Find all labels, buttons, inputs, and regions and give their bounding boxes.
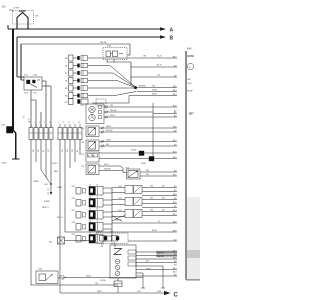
wire jog xyxy=(13,130,16,133)
svg-text:G/8B7: G/8B7 xyxy=(57,187,62,189)
wire x41 down xyxy=(40,112,42,128)
svg-text:2/29: 2/29 xyxy=(71,234,75,236)
svg-text:NA1: NA1 xyxy=(54,170,58,173)
wire to ECM y207.5 xyxy=(142,207,177,209)
svg-text:22: 22 xyxy=(68,122,70,124)
svg-text:2/26: 2/26 xyxy=(71,198,75,200)
wire 4/52 to ECM y269.5 xyxy=(136,269,177,271)
wire 7/23 to ECM y172 xyxy=(140,171,177,173)
connector strip row xyxy=(29,128,33,140)
wire to ECM y113 xyxy=(153,113,177,115)
wire branch vertical x131 xyxy=(130,62,132,85)
svg-text:NET: NET xyxy=(189,114,194,116)
svg-text:8G: 8G xyxy=(65,96,68,98)
svg-text:GN-R: GN-R xyxy=(106,140,112,142)
wire feed stub xyxy=(7,25,9,29)
svg-text:G4/8B: G4/8B xyxy=(33,181,39,183)
junction knot MM/MB xyxy=(134,86,137,89)
wire comp4 to ECM y158 xyxy=(99,158,177,160)
svg-text:GN-R: GN-R xyxy=(146,269,151,271)
svg-text:B: B xyxy=(170,36,174,42)
svg-text:31B-1: 31B-1 xyxy=(2,163,8,165)
wire 30+ lead xyxy=(9,10,13,12)
fuse element symbol xyxy=(17,13,28,29)
svg-text:14: 14 xyxy=(78,122,80,124)
wire to ECM y191.5 xyxy=(142,191,177,193)
svg-text:BL: BL xyxy=(43,150,45,152)
wire row 8B to ECM xyxy=(92,57,177,59)
svg-text:C: C xyxy=(174,293,179,299)
svg-text:SB-R: SB-R xyxy=(97,291,102,293)
svg-text:2/28: 2/28 xyxy=(71,222,75,224)
wire to ECM y91 xyxy=(137,91,177,93)
wire to ECM y223 xyxy=(112,222,177,224)
arrowhead B xyxy=(160,35,166,39)
wire comp5 out a xyxy=(99,165,120,167)
wire bottom y293 xyxy=(60,292,164,294)
wire row7 up corner xyxy=(128,96,130,104)
wire down x143 xyxy=(142,273,144,288)
svg-text:4/46: 4/46 xyxy=(187,49,192,51)
svg-text:12: 12 xyxy=(29,122,31,124)
wire vertical x17 to relay xyxy=(16,37,18,77)
svg-text:2/28: 2/28 xyxy=(1,125,5,127)
wire down from connector x65 xyxy=(64,140,66,233)
wire down x60 long xyxy=(59,140,61,272)
svg-text:SB-R: SB-R xyxy=(110,115,115,117)
wire down from connector x70 xyxy=(69,140,71,169)
svg-text:B4/1-1: B4/1-1 xyxy=(57,217,63,219)
connector 53/2B inline xyxy=(139,151,144,156)
highlighted wire labels xyxy=(156,251,177,254)
wire comp1 to ECM y107 xyxy=(104,106,177,108)
svg-text:E3/5B: E3/5B xyxy=(44,201,50,203)
svg-text:31: 31 xyxy=(39,122,41,124)
wire 6/26 branch to ECM y67 xyxy=(131,66,177,68)
arrowhead C xyxy=(164,291,171,295)
wire down from connector x75 xyxy=(74,140,76,163)
wire comp1 to vertical x153 xyxy=(104,111,153,113)
wire 4/52 bend y273 xyxy=(136,272,143,274)
svg-text:B-11: B-11 xyxy=(29,118,31,122)
svg-text:GN-BR: GN-BR xyxy=(104,169,111,171)
wire to ECM y187.5 xyxy=(142,187,177,189)
svg-text:A1B: A1B xyxy=(173,229,177,232)
wire thick vertical feed x13 xyxy=(12,29,14,130)
wire relay bottom down x31 xyxy=(30,90,32,128)
wire merge diagonal 1 xyxy=(41,170,48,180)
svg-text:2/27: 2/27 xyxy=(71,210,75,212)
wire down x51 with arrow xyxy=(50,140,52,193)
svg-text:MM/MB: MM/MB xyxy=(139,86,147,88)
svg-text:SB-R: SB-R xyxy=(152,94,157,96)
wire to ECM y199.5 xyxy=(142,199,177,201)
svg-text:LV7B4: LV7B4 xyxy=(100,280,106,282)
svg-text:NA/GN2: NA/GN2 xyxy=(157,251,164,254)
wire relay out right 2 xyxy=(42,85,51,87)
svg-text:A/C: A/C xyxy=(188,78,192,81)
wire down from connector x41 xyxy=(40,140,42,171)
wire fan to junction MM/MB xyxy=(92,66,135,87)
wire long to ECM y232 xyxy=(65,231,177,233)
svg-text:B3-B: B3-B xyxy=(152,230,157,232)
svg-text:SLN: SLN xyxy=(188,83,193,85)
wire row7 xyxy=(92,102,129,104)
wire to ECM y195.5 xyxy=(142,195,177,197)
wire knot to ECM xyxy=(137,87,178,89)
ground tick 31B xyxy=(12,158,20,160)
svg-text:NA/GN: NA/GN xyxy=(115,219,122,222)
svg-text:GN-R: GN-R xyxy=(106,126,112,128)
wire vertical x21 to relay xyxy=(20,44,22,80)
wire to ECM y211.5 xyxy=(142,211,177,213)
fuse 11/6 dashed box xyxy=(13,11,34,25)
wire x36 down xyxy=(35,100,37,128)
wire 6/26 to branch vertical xyxy=(107,61,131,63)
svg-text:54/5: 54/5 xyxy=(44,184,48,186)
svg-text:4: 4 xyxy=(44,122,45,124)
svg-text:A: A xyxy=(170,28,174,34)
wire injector daisy vertical x112 xyxy=(111,188,113,241)
svg-text:2: 2 xyxy=(58,122,59,124)
wire bottom y277 xyxy=(63,277,143,279)
wire crossing NA/GN xyxy=(112,216,125,222)
wire 30+ feed to A xyxy=(8,28,160,30)
wire 6/26 branch to ECM y77 xyxy=(131,76,177,78)
circled L symbol xyxy=(187,63,193,69)
wire 7/23 to ECM y176 xyxy=(140,175,177,177)
wire to ECM y215.5 xyxy=(142,215,177,217)
wire to ECM y241 xyxy=(128,240,177,242)
svg-text:53/2B: 53/2B xyxy=(131,150,137,152)
svg-text:BL: BL xyxy=(77,150,79,152)
svg-text:NA/GN2: NA/GN2 xyxy=(157,255,164,258)
wire bottom y285 xyxy=(70,284,118,286)
svg-text:18: 18 xyxy=(49,122,51,124)
svg-text:MTRF: MTRF xyxy=(187,91,194,93)
wire 4/52 to ECM y255.5 xyxy=(136,255,177,257)
connector LV7B4 xyxy=(117,278,119,281)
svg-text:BL-R: BL-R xyxy=(157,56,162,58)
wire down from connector x80 xyxy=(79,140,81,156)
svg-text:ECM: ECM xyxy=(188,54,195,58)
svg-text:GN-SB: GN-SB xyxy=(100,42,107,44)
svg-text:5: 5 xyxy=(73,122,74,124)
wire 4/52 bend y266 xyxy=(136,265,163,267)
wire comp4 to ECM y153 xyxy=(99,152,177,154)
wire 6/26 bottom stubs xyxy=(106,60,108,63)
ECM connector 4/46 bus line xyxy=(185,51,187,280)
svg-text:SB-GN: SB-GN xyxy=(106,130,113,132)
svg-text:2/25: 2/25 xyxy=(71,186,75,188)
wire x31 corner bottom xyxy=(31,284,70,286)
wire vertical x153 xyxy=(152,103,154,157)
svg-text:A1B: A1B xyxy=(173,220,177,223)
svg-text:SB-GN: SB-GN xyxy=(110,110,117,112)
svg-text:7: 7 xyxy=(34,122,35,124)
wire down from connector x36 xyxy=(35,140,37,163)
svg-text:GN-R: GN-R xyxy=(152,90,158,92)
wire down from connector x31 xyxy=(30,140,32,286)
wire down x163 xyxy=(162,266,164,288)
arrowhead A xyxy=(160,27,166,31)
svg-text:2/32-1: 2/32-1 xyxy=(52,163,59,165)
wire to 6/26 xyxy=(21,43,130,45)
wire 4/52 to ECM y252 xyxy=(136,251,177,253)
wire comp3 to ECM y141 xyxy=(99,141,177,143)
wire feed to B xyxy=(17,36,160,38)
wire drop into 6/26 xyxy=(129,44,131,55)
connector tick bottom left xyxy=(62,277,66,281)
svg-text:2/3B: 2/3B xyxy=(157,291,162,293)
wire comp5 out b xyxy=(99,170,123,172)
wire thick vertical lower xyxy=(15,133,17,159)
svg-text:GN-Y: GN-Y xyxy=(104,164,110,166)
svg-text:(AOLC): (AOLC) xyxy=(42,206,49,209)
wire 341 to 4/5x xyxy=(65,240,97,242)
svg-text:53/5B: 53/5B xyxy=(141,163,147,165)
svg-text:BL-R: BL-R xyxy=(157,65,162,67)
connector 53/5B inline xyxy=(149,157,154,162)
Z coil symbol xyxy=(114,249,122,255)
wire 4/52 to ECM y262.5 xyxy=(136,262,177,264)
wire down from connector x46 xyxy=(45,140,47,178)
wire comp1 to ECM y117 xyxy=(104,116,177,118)
wire comp3 to ECM y146 xyxy=(99,145,177,147)
wire comp2 to ECM y132 xyxy=(99,131,177,133)
wire 4/52 to ECM y259 xyxy=(136,258,177,260)
wire to ECM y203.5 xyxy=(142,203,177,205)
svg-text:9: 9 xyxy=(63,122,64,124)
svg-text:R-1: R-1 xyxy=(24,115,26,118)
svg-text:GN-B: GN-B xyxy=(86,276,92,278)
wire merge diagonal 2 xyxy=(46,177,50,183)
wire relay out right 1 xyxy=(42,80,46,82)
wire 4/52 to ECM y276 xyxy=(136,275,177,277)
connector 31/3 junction box xyxy=(7,127,14,134)
gray block right xyxy=(187,197,200,280)
wire comp2 to ECM y128 xyxy=(99,127,177,129)
svg-text:30+: 30+ xyxy=(2,6,7,9)
svg-text:11/7E8: 11/7E8 xyxy=(13,8,20,10)
wire to ECM y95 xyxy=(129,95,177,97)
